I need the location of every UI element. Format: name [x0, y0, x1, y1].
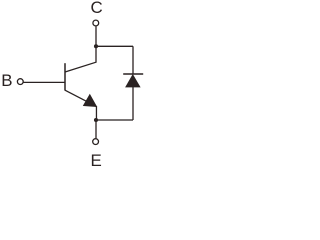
wire C terminal to top junction — [95, 26, 97, 46]
junction dot bottom node — [94, 118, 98, 122]
wire top junction to diode branch — [96, 45, 133, 47]
transistor Q1 emitter arrow — [83, 95, 96, 107]
transistor Q1 collector lead — [65, 46, 96, 72]
junction dot top node — [94, 44, 98, 48]
wire diode branch upper segment — [132, 46, 134, 74]
transistor Q1 base bar — [64, 63, 66, 90]
svg-text:B: B — [1, 71, 12, 90]
terminal B node circle — [17, 79, 23, 85]
wire bottom junction to E terminal — [95, 120, 97, 138]
transistor Q1 emitter lead — [65, 90, 97, 106]
diode D1 anode triangle — [126, 75, 140, 87]
wire emitter arrow to bottom junction — [95, 106, 97, 120]
svg-text:C: C — [90, 0, 102, 17]
base wire B terminal to transistor — [23, 81, 65, 83]
wire diode branch lower segment — [132, 87, 134, 120]
terminal E node circle — [93, 139, 99, 145]
diode D1 cathode bar — [123, 73, 143, 75]
svg-text:E: E — [90, 151, 101, 170]
terminal C node circle — [93, 20, 99, 26]
wire bottom junction to diode branch — [96, 119, 133, 121]
